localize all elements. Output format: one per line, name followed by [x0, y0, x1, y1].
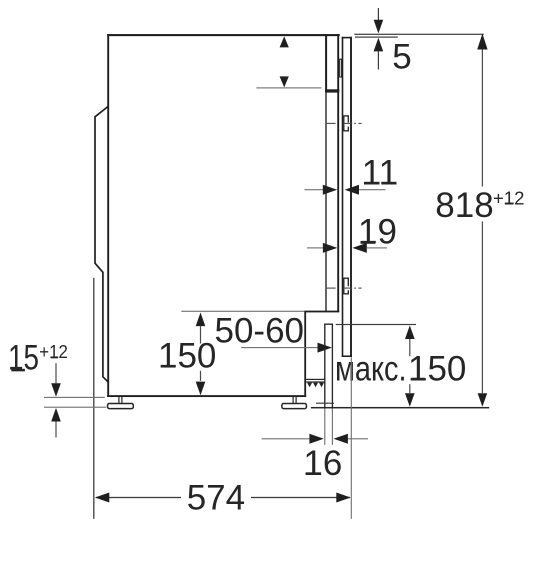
svg-text:50-60: 50-60 [215, 311, 305, 350]
svg-text:150: 150 [158, 337, 216, 376]
svg-text:макс.: макс. [335, 349, 407, 388]
svg-text:15: 15 [8, 338, 39, 377]
svg-text:150: 150 [408, 349, 466, 388]
svg-text:574: 574 [187, 479, 245, 518]
svg-text:19: 19 [358, 213, 397, 252]
svg-text:16: 16 [303, 444, 342, 483]
svg-text:+12: +12 [493, 187, 524, 208]
svg-text:818: 818 [435, 186, 493, 225]
svg-text:+12: +12 [39, 341, 68, 362]
svg-text:11: 11 [362, 154, 398, 193]
svg-text:5: 5 [392, 37, 411, 76]
